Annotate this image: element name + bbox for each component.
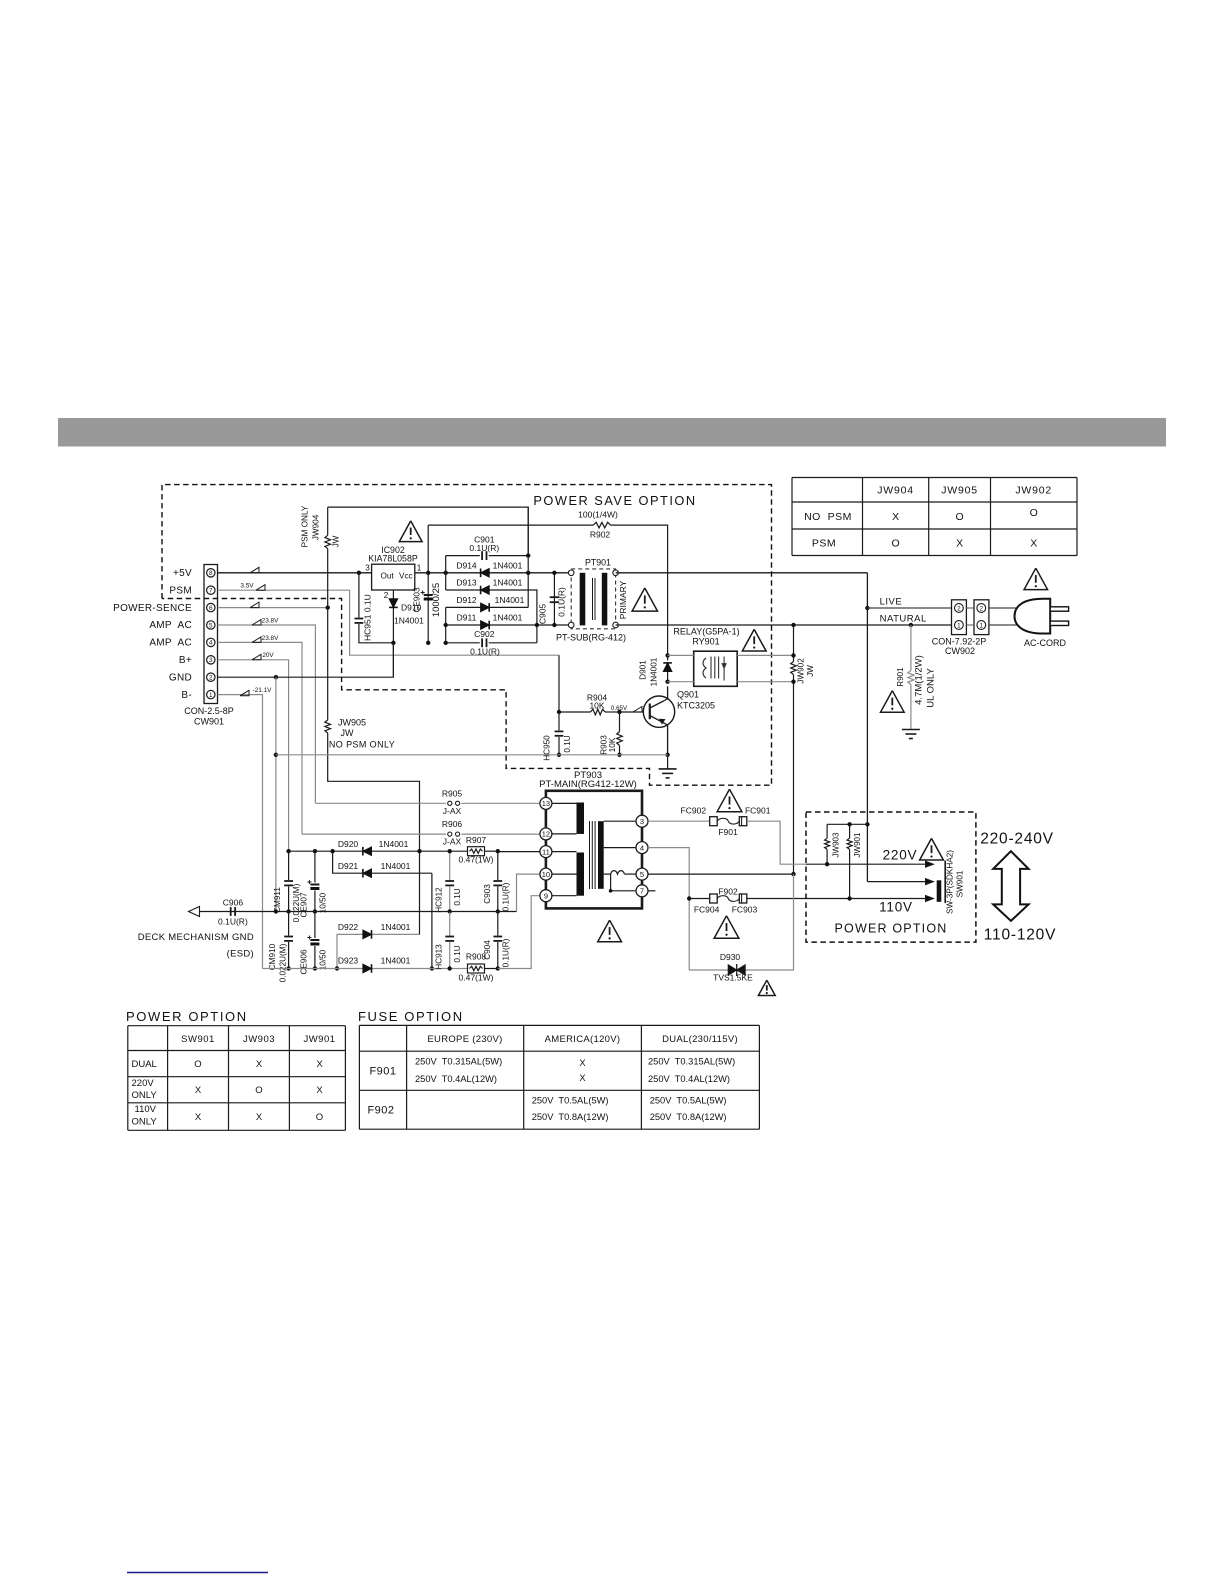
wire GND down	[275, 677, 277, 911]
node C903 top	[496, 849, 500, 853]
svg-text:3.5V: 3.5V	[240, 583, 254, 590]
CW901 pin 7 (PSM)	[207, 586, 215, 594]
svg-text:4.7M(1/2W): 4.7M(1/2W)	[914, 655, 925, 705]
diode D922 1N4001 row	[337, 934, 420, 968]
svg-text:3: 3	[640, 817, 644, 826]
gray header bar	[58, 418, 1166, 447]
svg-text:8: 8	[209, 570, 213, 577]
CW901 pin 1 (B-)	[207, 690, 215, 698]
svg-text:RY901: RY901	[692, 637, 719, 647]
capacitor C906 0.1U(R) ESD row	[200, 911, 276, 913]
svg-text:10/50: 10/50	[319, 892, 328, 913]
svg-text:JW903: JW903	[243, 1034, 275, 1045]
svg-text:NO PSM ONLY: NO PSM ONLY	[329, 740, 395, 750]
node C901 right	[526, 553, 530, 557]
svg-text:1N4001: 1N4001	[493, 613, 523, 623]
wire node A vertical upper	[445, 556, 447, 590]
resistor R908 0.47(1W)	[468, 964, 485, 973]
svg-text:0.1U(R): 0.1U(R)	[218, 917, 248, 927]
capacitor C903 0.1U(R)	[497, 851, 499, 880]
arrow 110V into switch	[926, 896, 934, 902]
svg-text:PT-SUB(RG-412): PT-SUB(RG-412)	[556, 633, 626, 643]
middle switch feed	[867, 881, 925, 883]
svg-text:X: X	[316, 1085, 323, 1096]
node LIVE	[865, 606, 869, 610]
svg-text:5: 5	[640, 870, 644, 879]
svg-text:10K: 10K	[608, 737, 617, 752]
resistor R902 100(1/4W)	[428, 524, 593, 526]
svg-text:JW905: JW905	[338, 718, 366, 728]
svg-text:X: X	[956, 538, 963, 550]
wire POWER-SENCE pin6 to JW904 line	[218, 607, 328, 609]
node R903 top	[617, 710, 621, 714]
jumper R905 J-AX row	[315, 802, 446, 804]
svg-text:J-AX: J-AX	[443, 836, 462, 846]
svg-text:D923: D923	[338, 956, 359, 966]
capacitor CE907 10/50	[314, 851, 316, 882]
svg-text:1: 1	[957, 623, 961, 630]
POWER OPTION dashed box	[806, 812, 976, 942]
svg-text:7: 7	[640, 887, 644, 896]
svg-text:0.1U: 0.1U	[453, 888, 462, 905]
svg-text:23.8V: 23.8V	[262, 617, 279, 624]
svg-text:X: X	[892, 511, 899, 523]
svg-text:250V T0.315AL(5W): 250V T0.315AL(5W)	[415, 1057, 502, 1067]
diode D920 1N4001 row	[289, 850, 468, 852]
test point on pin6 wire	[250, 602, 259, 608]
node F902 left	[687, 896, 691, 900]
svg-text:2: 2	[384, 591, 389, 600]
svg-text:1N4001: 1N4001	[493, 560, 523, 570]
svg-text:1: 1	[417, 564, 422, 573]
svg-text:2: 2	[957, 606, 961, 613]
svg-text:+5V: +5V	[173, 568, 192, 579]
wire bottom rail PT901 to CW902	[616, 624, 952, 626]
wire PSM drop to R904 row	[558, 655, 560, 712]
svg-text:SW-3P(SDKHA2): SW-3P(SDKHA2)	[946, 850, 955, 914]
resistor R903 10K	[619, 712, 621, 732]
svg-text:X: X	[256, 1112, 263, 1123]
wire base	[620, 711, 650, 713]
node A bottom	[444, 641, 448, 645]
ground symbol below Q901	[667, 755, 669, 769]
svg-text:GND: GND	[169, 672, 192, 683]
svg-text:1N4001: 1N4001	[381, 922, 411, 932]
svg-text:KTC3205: KTC3205	[677, 701, 715, 711]
svg-text:CM911: CM911	[273, 887, 282, 913]
svg-text:X: X	[256, 1059, 263, 1070]
svg-text:F902: F902	[718, 886, 738, 896]
svg-text:DUAL(230/115V): DUAL(230/115V)	[662, 1034, 738, 1045]
svg-text:1N4001: 1N4001	[381, 956, 411, 966]
arrow 220V into switch	[926, 861, 934, 867]
svg-text:250V T0.315AL(5W): 250V T0.315AL(5W)	[648, 1057, 735, 1067]
wire B+ pin3 down to D920 row	[218, 660, 289, 851]
svg-text:PRIMARY: PRIMARY	[618, 580, 628, 619]
wire PSM pin7 route	[218, 590, 560, 655]
svg-text:SW901: SW901	[956, 870, 965, 897]
svg-text:CE906: CE906	[300, 949, 309, 974]
svg-text:F902: F902	[367, 1105, 394, 1117]
svg-text:JW905: JW905	[941, 485, 978, 497]
svg-text:0.47(1W): 0.47(1W)	[459, 973, 494, 983]
svg-text:250V T0.5AL(5W): 250V T0.5AL(5W)	[532, 1096, 609, 1106]
warning triangle above F901	[717, 789, 742, 812]
svg-text:R905: R905	[442, 789, 463, 799]
node D913-drop on bottom rail	[535, 623, 539, 627]
warning triangle above plug	[1024, 568, 1048, 589]
transformer PT903 PT-MAIN(RG412-12W)	[546, 791, 642, 909]
svg-text:HC913: HC913	[435, 944, 444, 970]
svg-text:1N4001: 1N4001	[379, 839, 409, 849]
diode D911 1N4001 on bottom rail	[446, 624, 572, 626]
svg-text:AMP AC: AMP AC	[149, 620, 192, 631]
ground rail wire	[276, 754, 668, 756]
wire JW904 top to node B	[328, 507, 529, 555]
wire PT903 pin7 stub	[648, 890, 656, 892]
node A top	[444, 571, 448, 575]
svg-text:0.65V: 0.65V	[611, 705, 628, 712]
svg-text:EUROPE (230V): EUROPE (230V)	[427, 1034, 502, 1045]
svg-text:R906: R906	[442, 819, 463, 829]
PT903 pin circles	[540, 797, 552, 809]
footer rule	[127, 1572, 268, 1574]
svg-text:Out: Out	[381, 572, 395, 581]
warning triangle near R901	[880, 691, 904, 713]
svg-text:23.8V: 23.8V	[262, 635, 279, 642]
svg-text:X: X	[579, 1073, 585, 1083]
capacitor HC912 0.1U	[449, 851, 451, 880]
svg-text:R907: R907	[466, 835, 487, 845]
svg-text:FC902: FC902	[681, 806, 707, 816]
svg-text:250V T0.4AL(12W): 250V T0.4AL(12W)	[415, 1074, 497, 1084]
svg-text:FUSE OPTION: FUSE OPTION	[358, 1009, 464, 1024]
wire LIVE row	[867, 607, 951, 609]
svg-text:2: 2	[209, 675, 213, 682]
wire AMP-AC pin4 to R906 row	[218, 642, 303, 834]
wire B- pin1 down to D923 row	[218, 695, 263, 969]
svg-text:4: 4	[640, 843, 644, 852]
connector CW902 CON-7.92-2P	[952, 600, 967, 635]
svg-text:PT901: PT901	[585, 558, 611, 568]
capacitor CE906 10/50	[314, 912, 316, 939]
switch SW901 SW-3P(SDKHA2)	[944, 861, 946, 903]
diode D923 1N4001 row	[263, 968, 468, 970]
svg-text:FC903: FC903	[732, 905, 758, 915]
wire live feed corner	[866, 573, 868, 882]
svg-text:D911: D911	[457, 613, 477, 623]
relay RY901 G5PA-1 box	[694, 651, 738, 686]
svg-text:CON-2.5-8P: CON-2.5-8P	[184, 706, 234, 716]
CW901 pin 5 (AMP AC)	[207, 621, 215, 629]
svg-text:X: X	[195, 1085, 202, 1096]
svg-text:KIA78L058P: KIA78L058P	[368, 554, 418, 564]
PT903 pin7 link	[611, 874, 636, 891]
svg-text:CON-7.92-2P: CON-7.92-2P	[932, 637, 987, 647]
node A on bottom rail	[444, 623, 448, 627]
svg-text:10K: 10K	[589, 700, 604, 710]
node IC902 pin3 / HC951	[357, 571, 361, 575]
warning triangle right of PT901	[632, 588, 657, 611]
svg-text:X: X	[579, 1058, 585, 1068]
svg-text:POWER-SENCE: POWER-SENCE	[113, 603, 192, 614]
svg-text:10/50: 10/50	[319, 949, 328, 970]
diode D930 TVS1.5KE loop	[745, 874, 793, 970]
capacitor CM910 0.022U(M)	[288, 912, 290, 936]
svg-text:TVS1.5KE: TVS1.5KE	[713, 973, 753, 983]
warning triangle below F902	[714, 916, 739, 939]
svg-text:R908: R908	[466, 952, 487, 962]
svg-text:D921: D921	[338, 861, 359, 871]
jumper JW902	[793, 625, 795, 662]
svg-text:1N4001: 1N4001	[394, 616, 424, 626]
svg-text:B+: B+	[179, 655, 192, 666]
svg-text:CW902: CW902	[945, 646, 975, 656]
jumper JW905	[325, 720, 331, 733]
warning triangle right of relay	[742, 629, 766, 651]
CW901 pin 6 (POWER-SENCE)	[207, 603, 215, 611]
svg-text:4: 4	[209, 640, 213, 647]
warning triangle beside 220V	[920, 838, 944, 860]
svg-text:UL ONLY: UL ONLY	[926, 668, 937, 708]
svg-text:JW: JW	[332, 535, 341, 547]
svg-text:O: O	[892, 538, 900, 550]
svg-text:D912: D912	[456, 595, 477, 605]
svg-text:FC901: FC901	[745, 806, 771, 816]
capacitor C904 0.1U(R)	[497, 912, 499, 936]
svg-text:SW901: SW901	[181, 1034, 215, 1045]
svg-text:JW: JW	[341, 728, 355, 738]
svg-text:11: 11	[542, 847, 550, 856]
svg-text:1N4001: 1N4001	[381, 861, 411, 871]
svg-text:20V: 20V	[262, 652, 274, 659]
transistor Q901 KTC3205	[643, 696, 674, 727]
capacitor CM911 0.022U(M)	[288, 851, 290, 880]
svg-text:JW: JW	[806, 665, 815, 677]
wire main +rail IC902 pin1 to PT901	[415, 572, 571, 574]
svg-text:1000/25: 1000/25	[431, 583, 442, 617]
svg-text:JW903: JW903	[831, 832, 840, 857]
svg-text:C902: C902	[474, 629, 495, 639]
svg-text:X: X	[195, 1112, 202, 1123]
wire D922 to D920 row	[419, 851, 421, 934]
svg-text:D914: D914	[456, 560, 477, 570]
svg-text:D913: D913	[456, 578, 477, 588]
wire PT903 pin3 to F901	[648, 820, 710, 822]
capacitor C901 0.1U(R)	[446, 555, 480, 557]
resistor R907 0.47(1W)	[468, 847, 485, 856]
svg-text:JW904: JW904	[311, 514, 320, 540]
wire top rail PT901 to corner	[616, 572, 868, 574]
test point on +5V wire	[250, 567, 259, 573]
wire PT903 pin4 to F902 branch	[648, 848, 689, 970]
svg-text:R901: R901	[896, 667, 905, 687]
svg-text:0.1U(R): 0.1U(R)	[502, 882, 511, 911]
CW901 pin 4 (AMP AC)	[207, 638, 215, 646]
capacitor HC950 0.1U	[558, 712, 560, 730]
svg-text:CE907: CE907	[300, 892, 309, 917]
diode D914 1N4001	[481, 569, 490, 578]
node GND / ground rail	[274, 753, 278, 757]
fuse F901 with clips FC902 FC901	[710, 817, 718, 826]
node B rail	[526, 571, 530, 575]
svg-text:CW901: CW901	[194, 717, 224, 727]
svg-text:220-240V: 220-240V	[980, 831, 1054, 848]
svg-text:0.1U: 0.1U	[563, 735, 572, 752]
svg-text:O: O	[194, 1059, 201, 1070]
jumper R906 J-AX row	[302, 833, 446, 835]
svg-text:C906: C906	[223, 898, 244, 908]
svg-text:DECK MECHANISM GND: DECK MECHANISM GND	[138, 932, 254, 943]
double arrow 220/110	[993, 851, 1028, 921]
svg-text:9: 9	[544, 892, 548, 901]
svg-text:HC950: HC950	[543, 735, 552, 761]
svg-text:13: 13	[542, 799, 550, 808]
wire D913 drop to rail	[532, 590, 537, 643]
svg-text:AMP AC: AMP AC	[149, 638, 192, 649]
svg-text:JW902: JW902	[797, 658, 806, 684]
capacitor HC913 0.1U	[449, 912, 451, 936]
svg-text:B-: B-	[181, 690, 192, 701]
svg-text:O: O	[316, 1112, 323, 1123]
svg-text:D920: D920	[338, 839, 359, 849]
svg-text:100(1/4W): 100(1/4W)	[578, 510, 618, 520]
svg-text:DUAL: DUAL	[132, 1059, 157, 1070]
svg-text:D922: D922	[338, 922, 359, 932]
svg-text:D930: D930	[720, 952, 741, 962]
PT903 pin5 thermal link	[604, 873, 611, 875]
node GND branch	[274, 675, 278, 679]
resistor R901 4.7M(1/2W) UL ONLY	[910, 625, 912, 671]
svg-text:250V T0.8A(12W): 250V T0.8A(12W)	[532, 1112, 609, 1122]
wire D920 row to PT903 pin11	[498, 851, 540, 853]
svg-text:PT903: PT903	[574, 770, 602, 781]
diode D912 1N4001 row	[446, 606, 529, 608]
node HC950 top	[557, 710, 561, 714]
op-amp/regulator IC902 KIA78L058P	[372, 564, 415, 590]
wires CW902 to plug	[989, 607, 1020, 609]
jumper JW903	[826, 824, 828, 838]
warning triangle below PT903	[598, 920, 622, 942]
svg-text:JW901: JW901	[853, 832, 862, 857]
svg-text:R902: R902	[590, 530, 611, 540]
svg-text:1N4001: 1N4001	[493, 578, 523, 588]
node live drop to jumper row	[865, 822, 869, 826]
svg-text:1N4001: 1N4001	[495, 595, 525, 605]
node B+ / D920 row	[286, 849, 290, 853]
CW901 pin 8 (+5V)	[207, 569, 215, 577]
svg-text:110V: 110V	[135, 1104, 157, 1115]
relay rail wires	[668, 654, 694, 656]
wire D921 to D923 row	[431, 873, 433, 968]
svg-text:JW901: JW901	[303, 1034, 335, 1045]
diode D901 1N4001	[667, 655, 669, 660]
svg-text:0.1U(R): 0.1U(R)	[502, 938, 511, 967]
svg-text:7: 7	[209, 588, 213, 595]
svg-text:250V T0.4AL(12W): 250V T0.4AL(12W)	[648, 1074, 730, 1084]
FUSE OPTION table	[359, 1025, 759, 1129]
jumper option table JW904/JW905/JW902	[792, 478, 1077, 556]
svg-text:PSM ONLY: PSM ONLY	[300, 505, 309, 547]
capacitor C902 0.1U(R)	[446, 642, 480, 644]
svg-text:RELAY(G5PA-1): RELAY(G5PA-1)	[673, 627, 739, 637]
wire node A vertical lower	[445, 607, 447, 642]
svg-text:J-AX: J-AX	[443, 806, 462, 816]
node emitter / gnd rail	[665, 753, 669, 757]
wire +5V pin8 to IC902 pin3	[218, 572, 372, 574]
svg-text:3: 3	[209, 657, 213, 664]
node D910 / common row	[391, 641, 395, 645]
svg-text:FC904: FC904	[694, 905, 720, 915]
svg-text:ONLY: ONLY	[132, 1117, 158, 1128]
svg-text:(ESD): (ESD)	[227, 949, 254, 960]
svg-text:0.1U(R): 0.1U(R)	[469, 543, 499, 553]
svg-text:220V: 220V	[132, 1078, 155, 1089]
svg-text:HC951 0.1U: HC951 0.1U	[363, 594, 373, 641]
relay coil and contact symbol	[703, 658, 706, 678]
svg-text:1: 1	[980, 623, 984, 630]
CW901 pin 2 (GND)	[207, 673, 215, 681]
svg-text:1: 1	[209, 692, 213, 699]
svg-text:JW904: JW904	[877, 485, 914, 497]
svg-text:AMERICA(120V): AMERICA(120V)	[545, 1034, 621, 1045]
jumper row inside power option	[827, 823, 867, 825]
svg-text:X: X	[316, 1059, 323, 1070]
svg-text:C903: C903	[483, 884, 492, 904]
svg-text:-21.1V: -21.1V	[253, 687, 273, 694]
node CM911 bottom	[286, 909, 290, 913]
node JW901 bottom	[847, 896, 851, 900]
svg-text:220V: 220V	[883, 848, 918, 863]
svg-text:LIVE: LIVE	[880, 596, 903, 607]
svg-text:3: 3	[365, 564, 370, 573]
svg-text:0.1U(R): 0.1U(R)	[470, 647, 500, 657]
wire GND pin2 to rectifier common	[218, 643, 394, 677]
svg-text:POWER OPTION: POWER OPTION	[834, 922, 947, 936]
svg-text:NATURAL: NATURAL	[880, 613, 927, 624]
fuse F902 with clips FC904 FC903	[689, 898, 710, 900]
svg-text:O: O	[1030, 507, 1038, 519]
wire AMP-AC pin5 to R905 row	[218, 625, 316, 803]
warning triangle below D930	[758, 980, 775, 995]
POWER OPTION table	[128, 1026, 346, 1131]
svg-text:F901: F901	[718, 827, 738, 837]
wire pin10 riser	[517, 874, 540, 911]
svg-text:AC-CORD: AC-CORD	[1024, 638, 1066, 648]
jumper JW901	[849, 824, 851, 838]
wire PT903 pin5 row to live drop	[648, 873, 794, 875]
node pin6/JW904	[326, 605, 330, 609]
svg-text:X: X	[1030, 538, 1037, 550]
svg-text:110V: 110V	[879, 900, 913, 915]
svg-text:ONLY: ONLY	[132, 1090, 158, 1101]
svg-text:F901: F901	[369, 1066, 396, 1078]
resistor R904 10K	[559, 711, 591, 713]
node R901 on natural	[909, 623, 913, 627]
node relay coil bottom / Q901 collector	[665, 680, 669, 684]
svg-text:PSM: PSM	[812, 538, 836, 550]
svg-text:O: O	[255, 1085, 262, 1096]
svg-text:CM910: CM910	[268, 943, 277, 970]
warning triangle near IC902	[399, 521, 422, 542]
svg-text:HC912: HC912	[435, 887, 444, 913]
svg-text:12: 12	[542, 830, 550, 839]
svg-text:NO PSM: NO PSM	[804, 511, 852, 523]
svg-text:D901: D901	[639, 660, 648, 680]
wire F901 to 220V row	[747, 821, 806, 864]
POWER SAVE OPTION dashed boundary	[162, 485, 772, 786]
svg-text:250V T0.8A(12W): 250V T0.8A(12W)	[650, 1112, 727, 1122]
